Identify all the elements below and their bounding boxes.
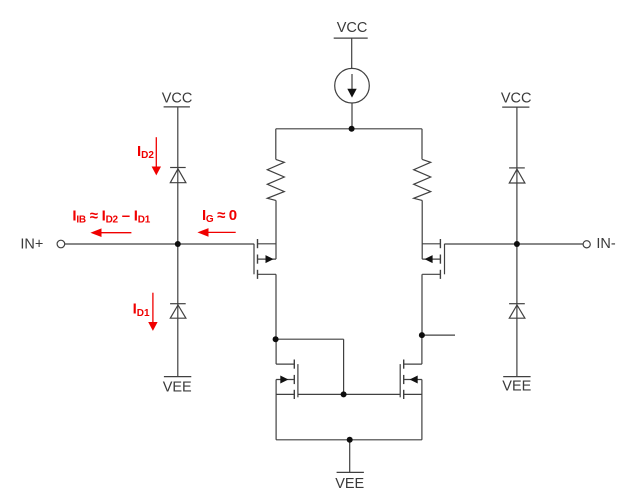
power VCC bar (top center) <box>334 37 368 39</box>
wire mirror gate tie (vertical drop) <box>343 339 345 394</box>
power VCC bar (right rail) <box>502 106 529 108</box>
arrow ID1 (downward, red) <box>148 293 157 331</box>
arrow IIB (leftward, red) <box>90 228 131 237</box>
wire IN+ net <box>65 243 254 245</box>
svg-text:IN+: IN+ <box>20 236 43 252</box>
wire node A to mirror gate tie (horizontal) <box>276 338 344 340</box>
wire tail rail to R1 <box>275 129 277 160</box>
junction node A (M1 drain / M3 drain) <box>273 336 279 342</box>
junction IN+ node <box>175 241 181 247</box>
junction IN- node <box>514 241 520 247</box>
junction node B (M2 drain / output) <box>419 332 425 338</box>
current source I1 (tail current, circle) <box>335 68 370 103</box>
transistor M4 (right mirror NMOS) <box>400 360 422 400</box>
svg-text:VCC: VCC <box>162 90 193 106</box>
junction bottom rail node <box>347 437 353 443</box>
transistor M2 (right input PMOS) <box>422 239 444 279</box>
wire M1 drain down to node A <box>275 274 277 339</box>
svg-text:IN-: IN- <box>596 236 616 252</box>
wire bottom rail to VEE <box>349 440 351 473</box>
current source I1 arrow shaft <box>351 74 353 90</box>
transistor M3 (left mirror NMOS) <box>276 360 298 400</box>
power VEE bar (bottom center) <box>337 471 364 473</box>
power VEE bar (right rail) <box>503 376 530 378</box>
wire VCC bar to current source <box>351 38 353 68</box>
wire right clamp rail vertical <box>516 107 518 377</box>
wire current source to tail node <box>351 103 353 129</box>
transistor M1 (left input PMOS) <box>254 239 276 279</box>
svg-text:IG ≈ 0: IG ≈ 0 <box>202 207 237 225</box>
arrow IG (leftward, red) <box>197 228 235 237</box>
diode D4 (VEE to IN-) <box>509 304 525 319</box>
wire R2 to M2 source/body <box>421 200 423 259</box>
wire node A to M3 drain <box>275 339 277 364</box>
current source I1 arrowhead <box>347 89 356 98</box>
wire tail rail <box>276 128 422 130</box>
diode D3 (IN- to VCC) <box>509 168 525 183</box>
wire M2 drain down to node B <box>421 274 423 335</box>
svg-text:VEE: VEE <box>163 380 192 396</box>
diode D2 (IN+ to VCC) <box>170 168 186 183</box>
wire bottom rail <box>276 439 422 441</box>
svg-text:ID2: ID2 <box>137 143 154 161</box>
junction tail node <box>349 126 355 132</box>
arrow ID2 (downward, red) <box>152 137 161 175</box>
wire IN- net <box>445 243 584 245</box>
resistor R2 (right load) <box>414 159 431 200</box>
svg-text:IIB ≈ ID2 – ID1: IIB ≈ ID2 – ID1 <box>72 207 150 225</box>
wire output stub from node B <box>422 334 455 336</box>
svg-text:VEE: VEE <box>335 476 364 492</box>
wire mirror gates tie M3-M4 <box>298 393 400 395</box>
wire R1 to M1 source/body <box>275 200 277 259</box>
wire M4 drain up to node B <box>421 335 423 364</box>
wire M4 source/body down to bottom rail <box>421 380 423 440</box>
resistor R1 (left load) <box>267 159 284 200</box>
svg-text:ID1: ID1 <box>133 301 150 319</box>
terminal IN+ (open circle) <box>57 240 65 248</box>
svg-text:VCC: VCC <box>501 91 532 107</box>
diode D1 (VEE to IN+) <box>170 304 186 319</box>
power VCC bar (left rail) <box>164 106 190 108</box>
wire tail rail to R2 <box>421 129 423 160</box>
junction mirror gate node <box>341 391 347 397</box>
terminal IN- (open circle) <box>583 241 590 248</box>
power VEE bar (left rail) <box>164 376 191 378</box>
svg-text:VEE: VEE <box>502 379 531 395</box>
wire left clamp rail vertical <box>177 107 179 377</box>
svg-text:VCC: VCC <box>337 20 368 36</box>
wire M3 source/body down to bottom rail <box>275 380 277 440</box>
